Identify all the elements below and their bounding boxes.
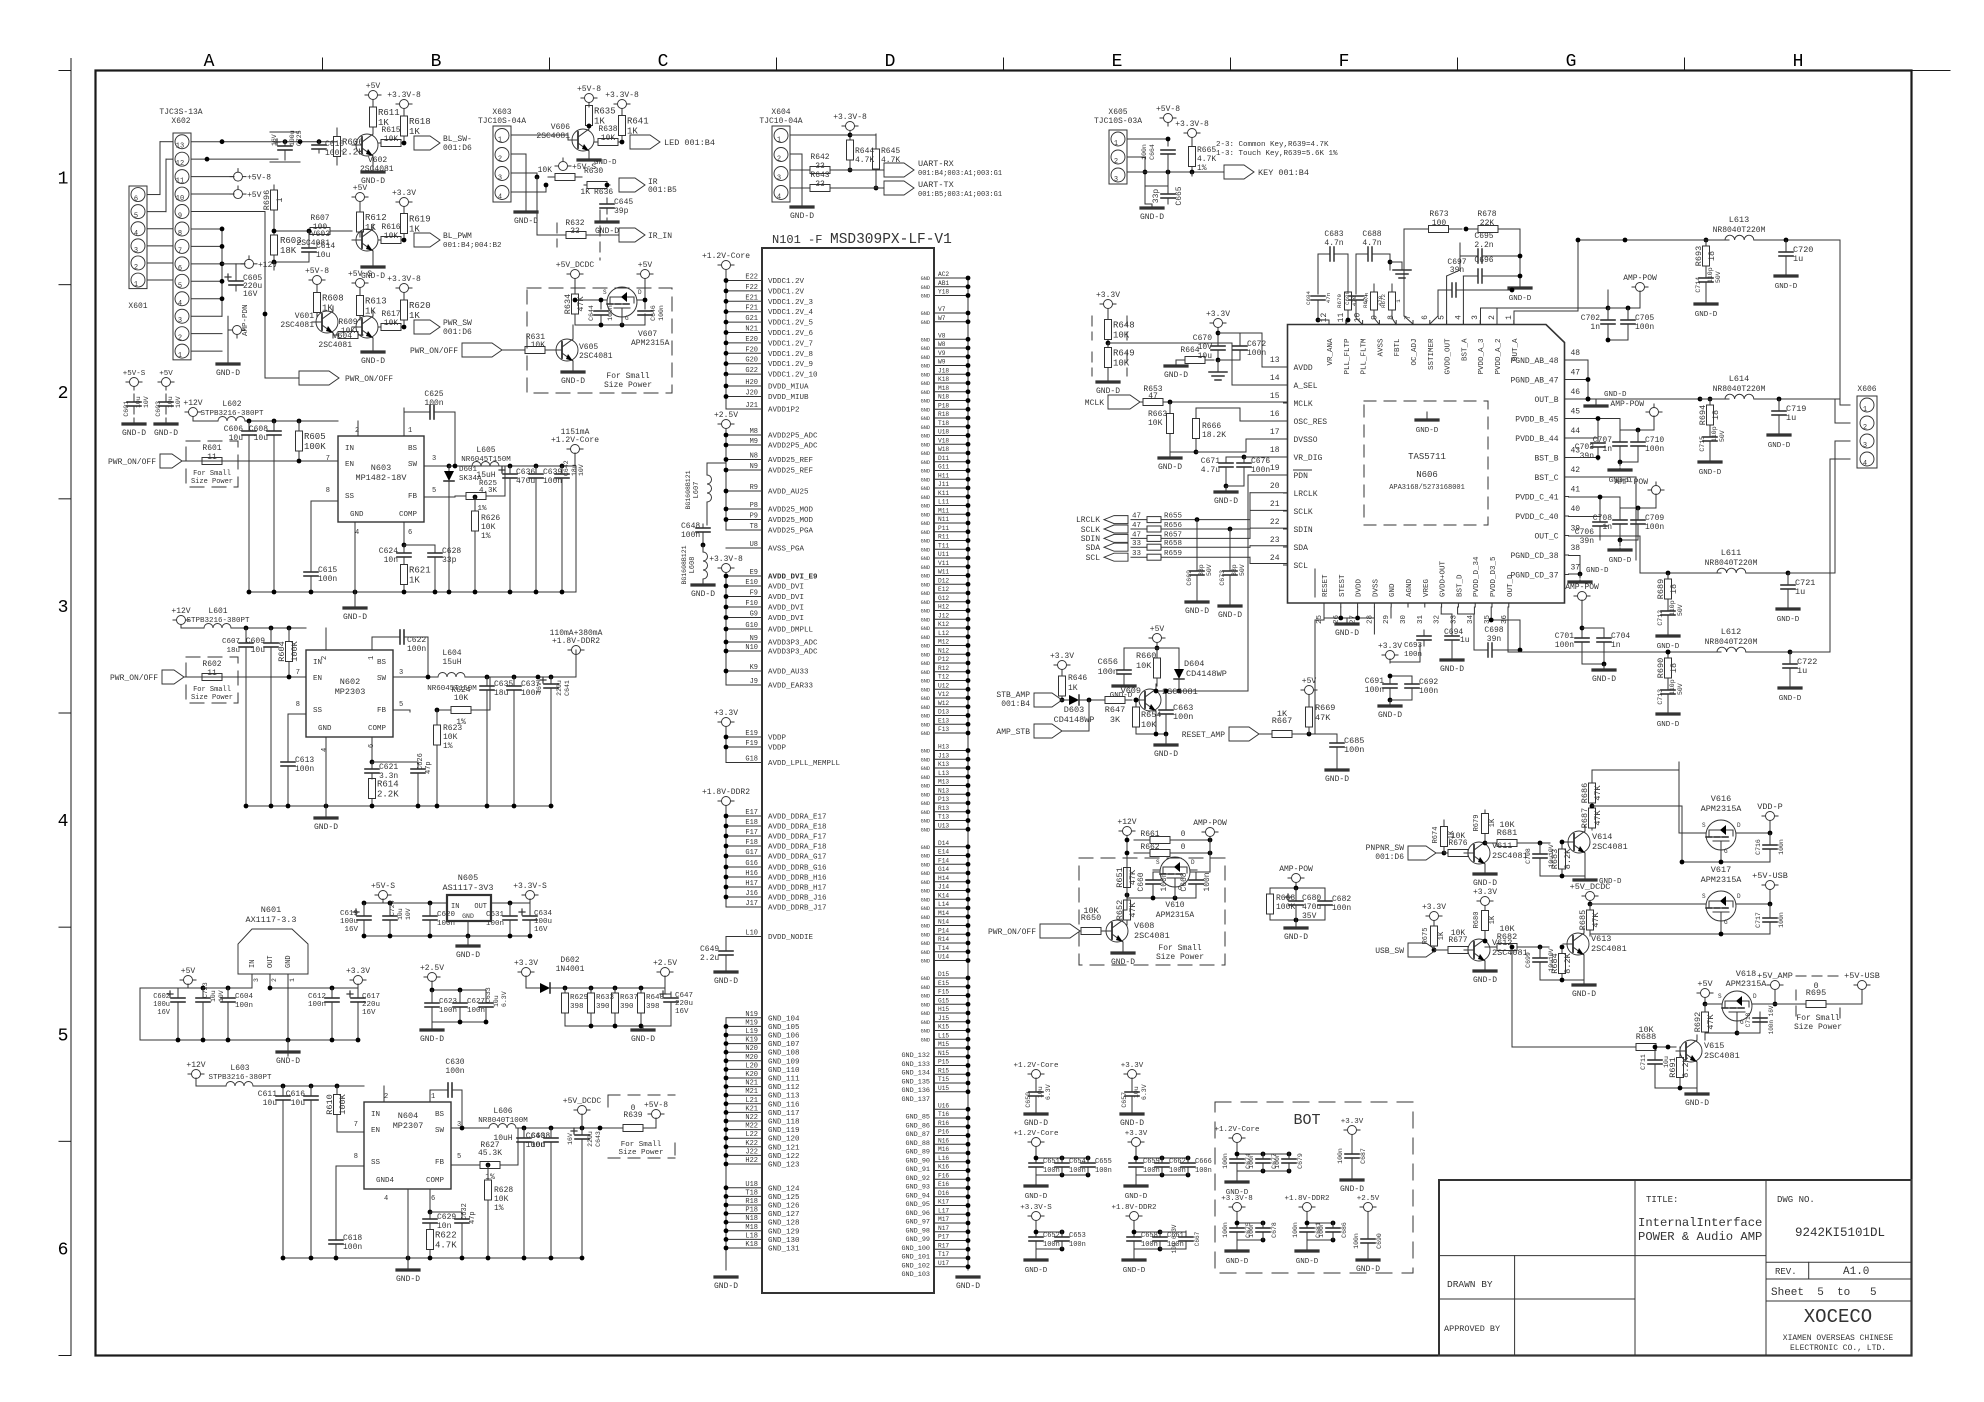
svg-text:SCL: SCL [1086,554,1101,563]
svg-text:+5V: +5V [1697,979,1713,989]
ground GND-D below C649 [714,972,738,986]
svg-text:AVDD_DDRB_J16: AVDD_DDRB_J16 [768,895,827,903]
svg-text:+1.2V-Core: +1.2V-Core [1013,1130,1058,1138]
svg-text:GND-D: GND-D [1775,283,1798,291]
resistor R624 10K 1% [393,677,490,727]
svg-text:GND: GND [921,434,930,440]
capacitor C696 [1463,256,1522,324]
svg-text:AVDD25_PGA: AVDD25_PGA [768,528,814,536]
svg-text:GND-D: GND-D [1024,1119,1048,1128]
svg-text:C: C [658,52,669,72]
svg-text:PDN: PDN [1294,472,1309,481]
resistor R649 10K [1105,343,1135,380]
power +5V-USB at V617 [1743,871,1788,906]
svg-text:001:B5: 001:B5 [648,186,677,195]
svg-text:9: 9 [178,213,182,221]
svg-text:C660: C660 [1137,872,1146,891]
svg-text:P18: P18 [938,402,949,409]
svg-text:110mA+380mA: 110mA+380mA [550,629,603,638]
svg-text:R605: R605 [304,432,326,442]
svg-text:R601: R601 [202,444,221,453]
mosfet V607 APM2315A [600,287,670,348]
svg-text:5: 5 [58,1026,69,1046]
net AMP-PDN [229,304,250,338]
svg-text:R671: R671 [1362,294,1369,308]
svg-text:U8: U8 [750,541,758,549]
svg-text:L13: L13 [938,770,949,777]
N101 GND_124-131 pin group [724,1181,800,1254]
svg-text:V9: V9 [938,350,946,357]
svg-text:2SC4081: 2SC4081 [318,341,352,350]
svg-text:U15: U15 [938,1085,949,1092]
capacitor C612 100n [308,988,339,1040]
svg-text:N10: N10 [745,644,758,652]
wire V611 collector node [1483,841,1488,846]
svg-text:K17: K17 [938,1199,949,1206]
svg-text:3: 3 [399,669,403,677]
svg-text:GND: GND [921,845,930,851]
svg-text:100n: 100n [445,1067,464,1076]
svg-text:1: 1 [431,1093,435,1101]
svg-text:GND-D: GND-D [561,377,585,386]
svg-text:GND-D: GND-D [1154,750,1178,759]
svg-text:AVDD_DVI: AVDD_DVI [768,594,804,602]
svg-text:4: 4 [355,529,359,537]
svg-text:GND: GND [921,950,930,956]
svg-text:11: 11 [207,453,217,462]
svg-text:+3.3V: +3.3V [1473,888,1497,897]
IC N101 MSD309PX-LF-V1 body [762,232,952,1293]
svg-text:T15: T15 [938,1076,949,1083]
resistor R687 47K [1580,804,1603,830]
svg-text:W11: W11 [938,569,949,576]
svg-text:GND: GND [921,714,930,720]
svg-text:2SC4081: 2SC4081 [296,239,330,248]
svg-text:C657: C657 [1121,1092,1128,1108]
transistor V615 2SC4081 [1676,1035,1740,1067]
svg-text:AS1117-3V3: AS1117-3V3 [442,883,493,893]
svg-text:STB_AMP: STB_AMP [996,691,1030,700]
svg-text:COMP: COMP [399,511,418,519]
ground GND-D at V603 [361,256,385,281]
resistor R638 10K [594,125,622,146]
svg-text:IR_IN: IR_IN [648,232,672,241]
svg-text:GND: GND [921,897,930,903]
capacitor C721 1u [1777,573,1816,624]
wire PVDD_B pins [1569,416,1621,438]
power +5V flag top-left [230,186,262,200]
svg-text:G15: G15 [938,997,949,1004]
power +12V at L603 [186,1061,205,1086]
svg-text:AVDD_DDRA_F17: AVDD_DDRA_F17 [768,834,827,842]
svg-text:R660: R660 [1136,651,1156,661]
svg-text:PWR_ON/OFF: PWR_ON/OFF [345,375,393,384]
svg-text:GND: GND [921,372,930,378]
ground GND-D at C694 [1440,658,1464,674]
svg-text:AVDD_DDRA_F18: AVDD_DDRA_F18 [768,844,827,852]
wire N606 bottom gnd pins [1324,607,1374,622]
resistor R613 1K [357,291,387,320]
svg-text:R16: R16 [938,1120,949,1127]
svg-text:+5V_DCDC: +5V_DCDC [563,1097,602,1106]
svg-text:L18: L18 [745,1232,758,1240]
wire V607 gate rail [573,298,648,328]
svg-text:1K: 1K [1068,684,1078,693]
svg-text:C648: C648 [681,522,700,531]
svg-text:+2.5V: +2.5V [653,959,677,968]
svg-text:AVDD2P5_ADC: AVDD2P5_ADC [768,443,818,451]
svg-text:GND: GND [921,407,930,413]
svg-text:10V: 10V [218,990,225,1002]
svg-text:10u: 10u [291,1099,306,1108]
svg-text:16V: 16V [362,1009,376,1017]
svg-text:GND: GND [921,670,930,676]
resistor R625 4.3K 1% [424,466,505,513]
ground GND-D at N605 [456,936,480,960]
svg-text:NR8040T220M: NR8040T220M [1713,226,1766,235]
capacitor C608 10u [249,421,281,592]
svg-text:V11: V11 [938,560,949,567]
svg-text:GND_101: GND_101 [901,1254,930,1262]
mosfet V618 APM2315A [1715,969,1767,1026]
svg-text:GND: GND [921,1020,930,1026]
svg-text:10u: 10u [493,995,500,1007]
svg-text:G: G [1724,919,1728,926]
svg-text:PGND_CD_38: PGND_CD_38 [1510,552,1558,561]
capacitor C627 100n [453,990,485,1022]
svg-text:E18: E18 [745,819,758,827]
svg-text:APM2315A: APM2315A [1701,875,1743,885]
svg-text:10u: 10u [397,908,404,920]
svg-text:39n: 39n [1487,635,1502,644]
svg-text:GND: GND [462,913,474,920]
svg-text:GND-D: GND-D [1025,1193,1048,1201]
wire L612 to X606 pin4 [1830,459,1850,652]
svg-text:C689: C689 [1344,291,1351,305]
inductor L612 NR8040T220M [1705,627,1830,654]
flag LED [620,135,715,149]
svg-text:R616: R616 [381,223,400,232]
capacitor C625 100n [404,390,455,466]
svg-text:C620: C620 [437,911,456,919]
svg-text:C715: C715 [1699,436,1706,452]
svg-text:AVDD3P3_ADC: AVDD3P3_ADC [768,640,818,648]
svg-text:PGND_AB_47: PGND_AB_47 [1510,377,1558,386]
svg-text:44: 44 [1571,427,1581,436]
svg-text:G20: G20 [745,357,758,365]
svg-text:7: 7 [326,455,330,463]
svg-text:C634: C634 [534,910,553,918]
svg-text:D15: D15 [938,971,949,978]
svg-text:RESET: RESET [1322,574,1330,597]
wire V603 base rail [272,215,352,270]
svg-text:D: D [1737,893,1741,900]
svg-text:L614: L614 [1729,374,1749,384]
svg-text:GND_95: GND_95 [906,1201,930,1209]
wire V615 cluster [1655,1019,1760,1092]
net AMP-POW bottom [1565,583,1599,628]
svg-text:C612: C612 [308,993,326,1001]
svg-text:10K: 10K [1638,1025,1654,1035]
resistor R662 0 [1134,843,1212,857]
svg-text:Size Power: Size Power [604,381,652,390]
flag IR [605,178,677,195]
svg-text:GND: GND [921,399,930,405]
svg-text:C651: C651 [1043,1158,1060,1166]
svg-text:2SC4081: 2SC4081 [579,352,613,361]
svg-text:TJC10S-03A: TJC10S-03A [1094,117,1142,126]
svg-text:GND: GND [921,486,930,492]
svg-text:V616: V616 [1711,794,1731,804]
svg-text:GND_94: GND_94 [906,1192,930,1200]
svg-text:M19: M19 [745,1019,758,1027]
wire N603 ground rail [247,466,576,600]
svg-text:PGND_CD_37: PGND_CD_37 [1510,572,1558,581]
svg-text:AVDD25_MOD: AVDD25_MOD [768,507,814,515]
transistor V614 2SC4081 [1564,826,1628,858]
svg-text:PLL_FLTP: PLL_FLTP [1344,338,1352,375]
svg-text:R665: R665 [1197,146,1216,155]
resistor R693 18 [1694,240,1717,272]
resistor R681 10K [1485,820,1550,847]
svg-text:EN: EN [371,1127,380,1135]
svg-text:J16: J16 [745,890,758,898]
svg-text:T12: T12 [938,674,949,681]
svg-text:100n: 100n [1069,1241,1086,1249]
svg-text:C711: C711 [1640,1054,1647,1070]
svg-text:W7: W7 [938,315,946,322]
capacitor bank C658 C661 C667 +1.8V-DDR2 [1111,1204,1183,1275]
ground GND-D at C696 [1509,283,1532,303]
resistor R661 0 [1125,830,1213,877]
svg-text:45: 45 [1571,408,1581,417]
svg-text:E20: E20 [745,336,758,344]
svg-text:10V: 10V [1198,343,1213,352]
svg-text:8.2K: 8.2K [1563,848,1573,869]
svg-text:390: 390 [620,1003,634,1011]
wire V613 emitter ground [1540,960,1584,983]
svg-text:100n: 100n [658,305,665,321]
svg-text:C659: C659 [1143,1158,1160,1166]
svg-text:L608: L608 [689,557,697,574]
svg-text:398: 398 [570,1003,584,1011]
svg-text:H22: H22 [745,1157,758,1165]
svg-text:8: 8 [296,701,300,709]
flag MCLK [1085,395,1143,409]
svg-text:OC_ADJ: OC_ADJ [1411,339,1419,366]
svg-text:SS: SS [313,707,323,715]
svg-text:CD4148WP: CD4148WP [1186,669,1227,679]
svg-text:N21: N21 [745,326,758,334]
resistor R667 1K [1268,709,1315,738]
svg-text:GND_128: GND_128 [768,1220,800,1228]
transistor V608 2SC4081 [1102,898,1170,947]
svg-text:GND: GND [921,346,930,352]
wire N605 ground rail [362,934,533,939]
svg-text:+5V: +5V [353,184,368,193]
svg-text:2SC4081: 2SC4081 [1492,851,1528,861]
wire PGND_AB to ground [1569,360,1628,406]
svg-text:PWR_SW: PWR_SW [443,319,472,328]
capacitor C640 100n [526,1128,558,1258]
svg-text:E: E [1112,52,1123,72]
capacitor C713 110p 50V [1657,679,1684,729]
svg-text:N16: N16 [938,1137,949,1144]
flag SDA [1086,543,1128,553]
svg-text:C623: C623 [439,998,458,1006]
resistor R654 10K [1133,698,1162,734]
svg-text:GND-D: GND-D [594,159,617,167]
svg-text:+5V_DCDC: +5V_DCDC [556,261,595,270]
resistor R604 100K [277,628,300,675]
capacitor C624 10n [379,522,411,565]
svg-text:100n: 100n [1248,1222,1255,1238]
svg-text:0: 0 [631,1104,636,1113]
svg-text:GND: GND [921,731,930,737]
resistor R639 0 [616,1104,650,1132]
svg-text:H16: H16 [745,870,758,878]
svg-text:+1.8V-DDR2: +1.8V-DDR2 [1111,1204,1156,1212]
svg-text:AMP-POW: AMP-POW [1565,583,1599,592]
svg-text:21: 21 [1270,500,1280,509]
capacitor C714 110p 50V [1695,267,1722,319]
svg-text:F19: F19 [745,740,758,748]
capacitor C615 100n [304,501,338,592]
svg-text:OUT: OUT [474,903,487,911]
svg-text:GVDD+OUT: GVDD+OUT [1440,560,1448,597]
svg-text:GND: GND [921,600,930,606]
transistor V606 2SC4081 [536,123,594,156]
svg-text:GND_93: GND_93 [906,1184,930,1192]
capacitor C650 10u 6.3V with +1.2V-Core [1013,1062,1058,1128]
capacitor C605 220u 16V [225,264,262,299]
svg-text:29: 29 [1383,615,1391,624]
svg-text:SW: SW [435,1127,445,1135]
connector X606 [1857,385,1877,468]
svg-text:10V: 10V [578,464,585,476]
svg-text:GND: GND [921,994,930,1000]
svg-text:C653: C653 [1069,1232,1086,1240]
capacitor C639 100n [529,466,562,592]
svg-text:+3.3V: +3.3V [1125,1130,1148,1138]
svg-text:R640: R640 [646,994,665,1002]
svg-text:18: 18 [1669,663,1679,673]
svg-text:BG1608B121: BG1608B121 [685,470,692,509]
svg-text:2.2K: 2.2K [377,790,399,800]
svg-text:C669: C669 [1186,570,1193,586]
svg-text:001:B4: 001:B4 [1001,700,1030,709]
svg-text:1n: 1n [1602,445,1612,454]
svg-text:GND: GND [921,792,930,798]
capacitor C649 2.2u [700,945,733,972]
resistor R688 10K [1629,1025,1676,1051]
N101 GND_104-123 pin group [724,1011,800,1270]
svg-text:1%: 1% [494,1204,504,1213]
resistor R648 10K [1105,316,1135,345]
capacitor C663 100n [1159,689,1193,734]
wire D602 ground rail [565,1024,671,1029]
svg-text:GND_100: GND_100 [901,1245,930,1253]
svg-text:16V: 16V [157,1009,170,1017]
svg-text:GND-D: GND-D [1125,1193,1148,1201]
resistor R641 1K [619,112,649,139]
svg-text:V608: V608 [1134,921,1154,931]
svg-text:GND: GND [921,985,930,991]
svg-text:R661: R661 [1140,830,1159,839]
svg-text:2: 2 [178,335,182,343]
svg-text:R604: R604 [277,641,287,661]
svg-text:1K: 1K [1277,709,1288,719]
resistor R680 1K [1473,907,1497,934]
svg-text:D: D [1753,993,1757,1000]
svg-text:R683: R683 [1550,849,1560,869]
svg-text:18: 18 [1669,584,1679,594]
svg-text:R619: R619 [409,215,431,225]
capacitor C693 100n [1374,607,1431,659]
svg-text:VDDC1.2V_3: VDDC1.2V_3 [768,299,814,307]
resistor R682 10K [1485,924,1549,951]
svg-text:PWR_ON/OFF: PWR_ON/OFF [110,674,158,683]
svg-text:F13: F13 [938,726,949,733]
svg-text:100n: 100n [1274,1153,1281,1169]
svg-text:R609: R609 [338,318,357,327]
svg-text:1: 1 [58,170,69,190]
svg-text:MP2303: MP2303 [335,687,366,697]
capacitor C685 100n [1315,734,1364,784]
transistor V605 2SC4081 [552,325,613,366]
svg-text:AVDD_DDRB_G16: AVDD_DDRB_G16 [768,865,827,873]
N101 VDDC1.2V pin group [724,270,818,380]
svg-text:GND: GND [921,337,930,343]
svg-text:+3.3V: +3.3V [514,959,538,968]
svg-text:PVDD_D_34: PVDD_D_34 [1473,556,1481,597]
svg-text:R686: R686 [1580,783,1590,803]
capacitor C689 47n [1344,290,1370,325]
svg-text:R641: R641 [627,117,649,127]
svg-text:17: 17 [1270,428,1280,437]
svg-text:39n: 39n [1580,537,1595,546]
N606 top pins 12-1 [1320,313,1520,375]
svg-text:+3.3V: +3.3V [1378,642,1402,651]
mosfet V616 APM2315A [1699,794,1743,855]
resistor R623 10K 1% [434,710,463,806]
svg-text:220u: 220u [587,1131,594,1147]
svg-text:VDD-P: VDD-P [1757,802,1783,812]
svg-text:GND_124: GND_124 [768,1185,800,1193]
svg-text:P9: P9 [750,513,758,521]
svg-text:+1.2V-Core: +1.2V-Core [1013,1062,1058,1070]
svg-text:2: 2 [384,1093,388,1101]
svg-text:C654: C654 [1069,1158,1086,1166]
svg-text:R602: R602 [202,660,221,669]
ground GND-D at V605 [561,366,585,386]
svg-text:E17: E17 [745,809,758,817]
svg-text:N9: N9 [750,635,758,643]
svg-text:390: 390 [596,1003,610,1011]
svg-text:LRCLK: LRCLK [1294,490,1318,499]
svg-text:3: 3 [498,175,502,183]
inductor L611 NR8040T220M [1705,548,1835,575]
resistor R602 11 [191,660,233,702]
capacitor C665 33p [1152,186,1184,205]
svg-text:220u: 220u [362,1001,380,1009]
svg-text:47p: 47p [469,1211,477,1224]
connector X602 TJC3S-13A [159,108,202,360]
svg-text:U18: U18 [745,1181,758,1189]
ground GND-D at C671 [1214,486,1238,506]
svg-text:NR8040T220M: NR8040T220M [1705,638,1758,647]
svg-text:U12: U12 [938,682,949,689]
